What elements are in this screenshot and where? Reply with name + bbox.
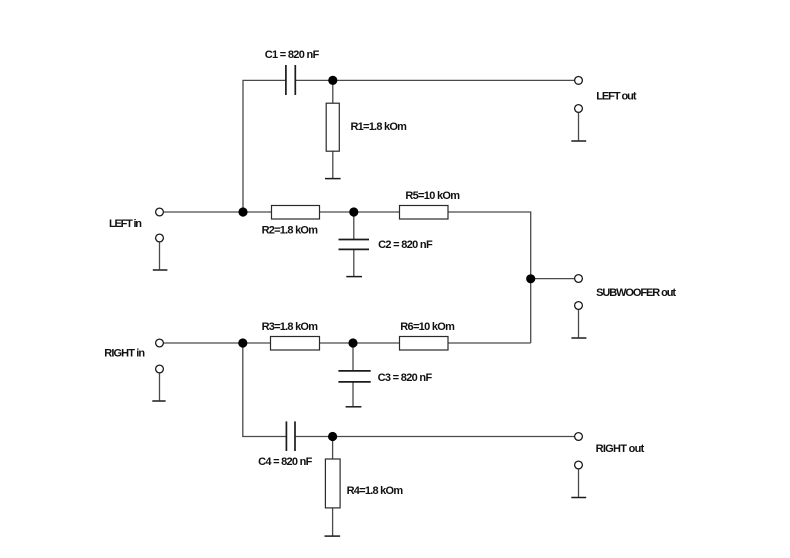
svg-text:C3 = 820 nF: C3 = 820 nF [378,372,433,384]
svg-text:C4 = 820 nF: C4 = 820 nF [258,456,313,468]
svg-text:C2 = 820 nF: C2 = 820 nF [378,239,433,251]
svg-text:R6=10 kOm: R6=10 kOm [400,321,455,333]
svg-text:LEFT in: LEFT in [109,218,142,230]
svg-text:C1 = 820 nF: C1 = 820 nF [265,49,320,61]
svg-text:RIGHT out: RIGHT out [596,443,645,455]
svg-text:R2=1.8 kOm: R2=1.8 kOm [262,224,319,236]
svg-text:RIGHT in: RIGHT in [104,348,145,360]
svg-text:R4=1.8 kOm: R4=1.8 kOm [347,485,404,497]
svg-text:R3=1.8 kOm: R3=1.8 kOm [262,321,319,333]
svg-text:R5=10 kOm: R5=10 kOm [405,190,460,202]
svg-text:LEFT out: LEFT out [596,91,637,103]
svg-text:R1=1.8 kOm: R1=1.8 kOm [351,121,408,133]
svg-text:SUBWOOFER out: SUBWOOFER out [596,287,676,299]
